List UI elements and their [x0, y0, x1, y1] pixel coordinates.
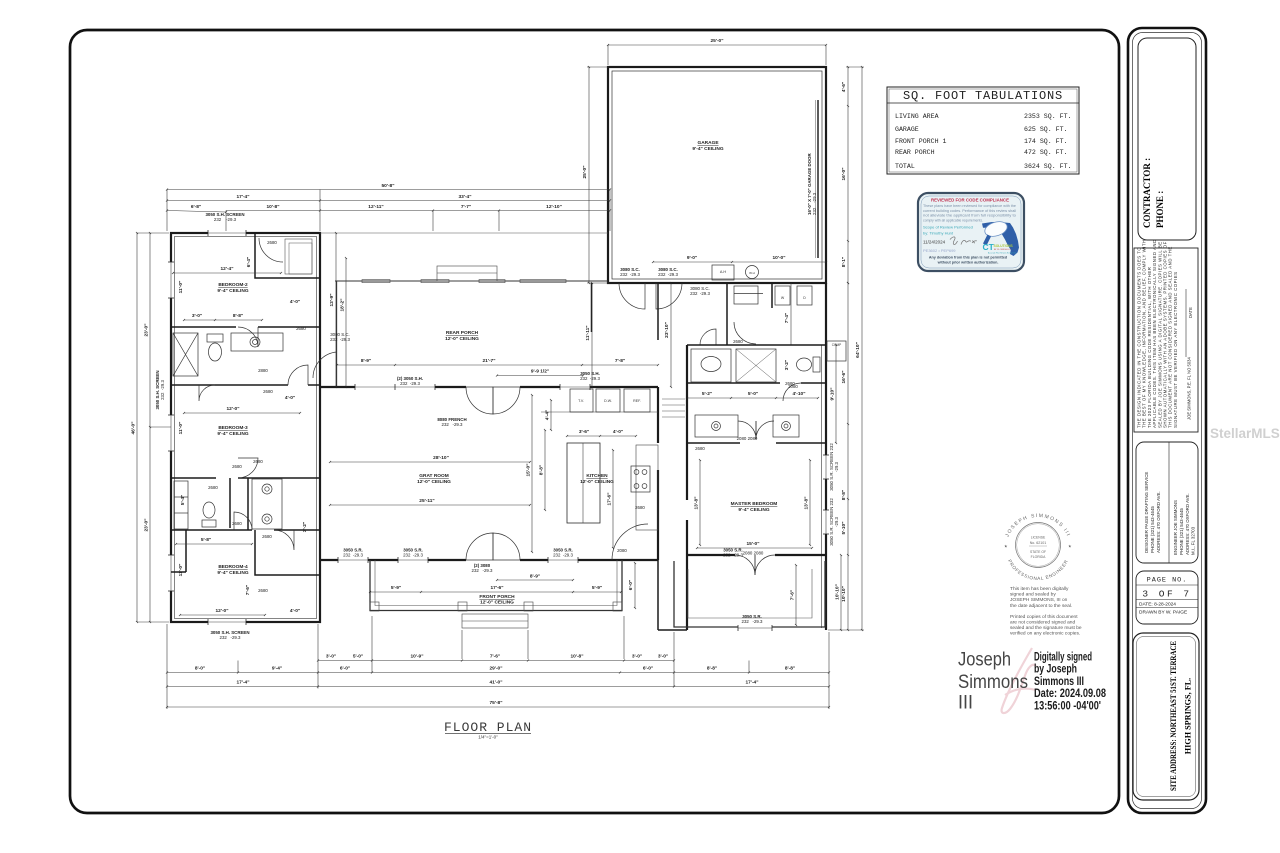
svg-text:232 -29.3: 232 -29.3 — [220, 635, 242, 640]
svg-text:2680: 2680 — [695, 446, 705, 451]
svg-text:50'-8": 50'-8" — [381, 183, 394, 189]
svg-text:Accurate Plan Review Every Tim: Accurate Plan Review Every Time — [988, 251, 1016, 254]
svg-text:5'-4": 5'-4" — [180, 495, 186, 505]
svg-text:6'-0": 6'-0" — [340, 666, 350, 672]
svg-text:75'-8": 75'-8" — [489, 700, 502, 706]
svg-text:64'-10": 64'-10" — [855, 342, 861, 358]
svg-text:REAR PORCH: REAR PORCH — [895, 149, 935, 156]
svg-text:FLOOR PLAN: FLOOR PLAN — [444, 720, 532, 735]
svg-text:8'-8": 8'-8" — [841, 490, 847, 500]
dim corridor 23'-10" — [670, 283, 672, 387]
south windows — [338, 557, 368, 563]
svg-text:17'-6": 17'-6" — [490, 585, 503, 591]
wing dims bed4 — [180, 614, 265, 616]
COMP box — [827, 341, 846, 361]
master shower — [736, 349, 776, 382]
svg-text:13'-8": 13'-8" — [694, 496, 700, 509]
front porch dims — [370, 591, 421, 593]
reviewer signature flourish — [950, 237, 977, 245]
svg-text:2680: 2680 — [253, 459, 263, 464]
svg-text:SIGNATURE MUST BE VERIFIED ON: SIGNATURE MUST BE VERIFIED ON ANY ELECTR… — [1173, 271, 1178, 428]
svg-text:ADDRESS: 470 OXFORD AVE.: ADDRESS: 470 OXFORD AVE. — [1156, 491, 1161, 553]
svg-text:DATE: DATE — [1188, 307, 1193, 318]
svg-text:7'-4": 7'-4" — [784, 313, 790, 323]
svg-text:23'-0": 23'-0" — [144, 323, 150, 336]
svg-text:BEDROOM-3: BEDROOM-3 — [218, 425, 248, 431]
bed2 closet — [255, 233, 320, 278]
svg-text:46'-0": 46'-0" — [131, 421, 137, 434]
svg-text:232 -29.3: 232 -29.3 — [690, 291, 710, 296]
rear porch edge — [335, 280, 608, 282]
wing window north — [208, 230, 246, 236]
hall/bath wall — [687, 344, 826, 346]
right porch dims — [795, 565, 797, 625]
bath3/bed4 wall — [171, 529, 252, 531]
svg-text:HIGH SPRINGS, FL.: HIGH SPRINGS, FL. — [1184, 678, 1193, 754]
svg-text:4'-6": 4'-6" — [841, 82, 847, 92]
svg-text:M.I., FL 32703: M.I., FL 32703 — [1191, 526, 1196, 555]
porch window south — [738, 625, 772, 631]
svg-text:CONTRACTOR :: CONTRACTOR : — [1142, 158, 1152, 228]
svg-text:1/4"=1'-0": 1/4"=1'-0" — [478, 735, 498, 740]
front porch outline — [370, 560, 622, 611]
svg-text:FLORIDA: FLORIDA — [1031, 555, 1046, 559]
svg-text:3'-0": 3'-0" — [192, 313, 202, 319]
svg-text:232 -29.3: 232 -29.3 — [160, 380, 165, 400]
svg-text:comply with all applicable req: comply with all applicable requirements. — [923, 218, 983, 222]
svg-text:10'-9": 10'-9" — [410, 654, 423, 660]
svg-text:15'-0": 15'-0" — [526, 463, 532, 476]
svg-text:are not considered signed and: are not considered signed and — [1010, 619, 1075, 625]
svg-text:13'-8": 13'-8" — [804, 496, 810, 509]
digital signature text — [1034, 650, 1106, 713]
svg-text:17'-4": 17'-4" — [236, 680, 249, 686]
kitchen window — [560, 384, 590, 390]
svg-text:SOLUTIONS: SOLUTIONS — [994, 244, 1014, 248]
svg-text:232 -29.3: 232 -29.3 — [658, 272, 678, 277]
svg-text:by: Timothy Hunt: by: Timothy Hunt — [923, 231, 954, 236]
svg-text:signed and sealed by: signed and sealed by — [1010, 592, 1056, 598]
svg-text:6'-0": 6'-0" — [643, 666, 653, 672]
svg-text:23'-0": 23'-0" — [144, 518, 150, 531]
bath door arc — [783, 383, 801, 401]
svg-text:GRAT ROOM: GRAT ROOM — [419, 473, 449, 479]
utility walls — [726, 283, 728, 345]
svg-text:Joseph: Joseph — [958, 649, 1011, 671]
wing dims bed3 — [184, 412, 300, 414]
svg-text:2680: 2680 — [267, 240, 277, 245]
svg-text:41'-0": 41'-0" — [489, 680, 502, 686]
designer/engineer box — [1136, 442, 1198, 563]
bath2 X box — [173, 333, 198, 376]
porch hall door arc — [313, 352, 337, 378]
svg-text:2080: 2080 — [617, 548, 627, 553]
magnifier handle — [983, 235, 991, 246]
svg-text:11'-0": 11'-0" — [178, 422, 184, 435]
dim garage left 25'-0" — [588, 67, 590, 283]
svg-text:FRONT PORCH: FRONT PORCH — [479, 594, 515, 600]
svg-text:the date adjacent to the seal.: the date adjacent to the seal. — [1010, 603, 1072, 609]
svg-text:current building codes. Perfor: current building codes. Performance of t… — [923, 209, 1016, 213]
dim garage right col1 — [847, 67, 849, 106]
garage door inner line — [817, 100, 819, 258]
bath3 toilet — [202, 520, 216, 527]
wic wall — [687, 442, 740, 444]
svg-text:Simmons: Simmons — [958, 671, 1028, 693]
bed2 door arc — [238, 327, 258, 347]
dim top 50'-8" — [167, 189, 610, 191]
page number box — [1136, 571, 1198, 624]
bed4 closet — [255, 530, 320, 575]
svg-text:11/24/2024: 11/24/2024 — [923, 240, 946, 245]
svg-text:PHONE (321) 543-4645: PHONE (321) 543-4645 — [1150, 506, 1155, 553]
svg-text:3'-0": 3'-0" — [632, 654, 642, 660]
svg-text:REAR PORCH: REAR PORCH — [446, 330, 479, 336]
svg-text:PAGE NO.: PAGE NO. — [1147, 577, 1188, 585]
bottom dim row C — [167, 686, 318, 688]
disclaimer box — [1134, 248, 1198, 432]
svg-text:sealed and the signature must: sealed and the signature must be — [1010, 625, 1082, 631]
disclaimer paragraph (rotated) — [1137, 239, 1178, 428]
svg-text:10'-8": 10'-8" — [266, 204, 279, 210]
svg-text:9'-4" CEILING: 9'-4" CEILING — [692, 146, 723, 152]
svg-text:2680: 2680 — [733, 339, 743, 344]
svg-text:FRONT PORCH 1: FRONT PORCH 1 — [895, 138, 946, 145]
svg-text:17'-6": 17'-6" — [607, 492, 613, 505]
svg-text:7'-6": 7'-6" — [490, 654, 500, 660]
dim 15'-0" vertical — [531, 395, 533, 552]
svg-text:12'-10": 12'-10" — [546, 204, 562, 210]
svg-text:BEDROOM-2: BEDROOM-2 — [218, 282, 248, 288]
bottom extension lines — [166, 624, 168, 709]
svg-text:11'-11": 11'-11" — [585, 325, 591, 340]
svg-text:8'-9": 8'-9" — [361, 358, 371, 364]
svg-text:DESIGNER PAIGE DRAFTING SERVI: DESIGNER PAIGE DRAFTING SERVICE — [1144, 472, 1149, 553]
svg-text:232 -29.3: 232 -29.3 — [400, 381, 420, 386]
svg-text:LICENSE: LICENSE — [1031, 536, 1046, 540]
bath2 vanity — [231, 333, 283, 351]
svg-text:9'-9 1/2": 9'-9 1/2" — [531, 369, 549, 375]
dim left 23'-0" x2 — [149, 233, 151, 427]
svg-text:8'-8": 8'-8" — [233, 313, 243, 319]
svg-text:3'-6": 3'-6" — [579, 429, 589, 435]
svg-text:5'-0": 5'-0" — [748, 391, 758, 397]
bath2 toilet — [207, 334, 223, 342]
svg-text:33'-4": 33'-4" — [458, 194, 471, 200]
dim master 15'-0" — [697, 547, 812, 549]
svg-text:25'-11": 25'-11" — [419, 498, 434, 504]
svg-text:4'-10": 4'-10" — [792, 391, 805, 397]
svg-text:2680: 2680 — [785, 381, 795, 386]
wing dims bed2 — [173, 272, 281, 274]
title block column outer border — [1128, 28, 1206, 813]
svg-text:4'-4": 4'-4" — [545, 410, 551, 420]
garage outer walls — [608, 67, 826, 283]
svg-text:13:56:00 -04'00': 13:56:00 -04'00' — [1034, 698, 1101, 712]
bath2/bed3 wall — [171, 384, 288, 386]
svg-text:25'-0": 25'-0" — [710, 38, 723, 44]
svg-text:5'-8": 5'-8" — [201, 537, 211, 543]
svg-text:AT FLORIDA LLC: AT FLORIDA LLC — [994, 248, 1012, 251]
svg-text:10'-10": 10'-10" — [841, 586, 847, 602]
dim kitchen 3'-6" 4'-0" — [567, 435, 600, 437]
svg-text:MASTER BEDROOM: MASTER BEDROOM — [731, 501, 778, 507]
svg-text:COMP: COMP — [832, 343, 842, 347]
garage service door arcs — [619, 283, 645, 309]
svg-text:6'-4": 6'-4" — [246, 257, 252, 267]
svg-text:DATE: 8-28-2024: DATE: 8-28-2024 — [1139, 602, 1176, 608]
svg-text:BEDROOM-4: BEDROOM-4 — [218, 564, 248, 570]
designer/engineer divider — [1168, 442, 1170, 563]
bottom dim small row — [318, 660, 372, 662]
svg-text:Printed copies of this documen: Printed copies of this document — [1010, 614, 1078, 620]
svg-text:T.V.: T.V. — [578, 399, 584, 403]
wic double door arcs — [738, 421, 756, 439]
dim right below garage — [847, 283, 849, 424]
svg-text:5'-9": 5'-9" — [391, 585, 401, 591]
svg-text:232 -29.3: 232 -29.3 — [403, 553, 423, 558]
rear right porch — [674, 561, 825, 627]
TV box — [570, 389, 593, 412]
master bath vanity — [691, 349, 731, 382]
wing right wall hallway lines — [336, 281, 338, 387]
signature ribbon mark — [1002, 648, 1036, 713]
svg-text:-29.3: -29.3 — [834, 461, 839, 472]
svg-text:232 -29.3: 232 -29.3 — [214, 217, 237, 222]
refrigerator box — [624, 389, 650, 412]
dim 17'-6" kitchen vertical — [612, 450, 614, 548]
svg-text:12'-4": 12'-4" — [220, 266, 233, 272]
svg-text:12'-0" CEILING: 12'-0" CEILING — [417, 479, 451, 485]
code compliance stamp — [918, 193, 1024, 271]
svg-text:5'-0": 5'-0" — [353, 654, 363, 660]
svg-text:A.H: A.H — [720, 270, 727, 274]
kitchen island — [567, 443, 600, 523]
svg-text:9'-4" CEILING: 9'-4" CEILING — [217, 288, 248, 294]
dim great room 25'-11" — [330, 504, 530, 506]
DW box — [596, 389, 620, 412]
dim left 46'-0" — [136, 233, 138, 622]
svg-text:4'-0": 4'-0" — [290, 608, 300, 614]
dim 4'-4" vertical — [550, 400, 552, 430]
svg-text:18'-2": 18'-2" — [340, 298, 346, 311]
printed signer name — [958, 649, 1028, 714]
svg-text:GARAGE: GARAGE — [895, 126, 919, 133]
svg-text:2680: 2680 — [263, 389, 273, 394]
right outer wall — [825, 283, 827, 630]
magnifier lens — [983, 219, 1009, 239]
svg-text:232 -29.3: 232 -29.3 — [553, 553, 573, 558]
svg-text:-29.3: -29.3 — [834, 516, 839, 527]
svg-text:5'-2": 5'-2" — [702, 391, 712, 397]
bath3 vanity with sinks — [252, 479, 282, 529]
contractor box — [1138, 38, 1196, 240]
great room south wall — [320, 559, 466, 561]
svg-text:9'-0": 9'-0" — [687, 255, 697, 261]
french door arcs rear — [466, 387, 493, 414]
svg-text:232 -29.3: 232 -29.3 — [723, 553, 743, 558]
svg-text:8'-8": 8'-8" — [785, 666, 795, 672]
svg-text:5'-10": 5'-10" — [841, 521, 847, 534]
range — [631, 466, 650, 492]
svg-text:9'-4": 9'-4" — [272, 666, 282, 672]
front french door arcs — [466, 533, 493, 560]
svg-text:8'-0": 8'-0" — [195, 666, 205, 672]
engineer seal — [1004, 513, 1072, 581]
svg-text:28'-10": 28'-10" — [433, 455, 449, 461]
svg-text:10'-10": 10'-10" — [835, 584, 841, 600]
svg-text:9'-4" CEILING: 9'-4" CEILING — [738, 507, 769, 513]
utility door arc — [700, 329, 716, 345]
svg-text:25'-0": 25'-0" — [582, 165, 588, 178]
svg-text:3 OF 7: 3 OF 7 — [1142, 589, 1191, 600]
svg-text:2353 SQ. FT.: 2353 SQ. FT. — [1024, 113, 1071, 120]
svg-text:2080 2080: 2080 2080 — [737, 436, 758, 441]
master south wall — [687, 554, 735, 556]
wing window south — [208, 619, 246, 625]
bath2 door arc — [288, 365, 308, 385]
svg-text:DRAWN BY W. PAIGE: DRAWN BY W. PAIGE — [1139, 610, 1187, 616]
svg-text:12'-11": 12'-11" — [368, 204, 383, 210]
svg-text:232 -29.3: 232 -29.3 — [580, 376, 600, 381]
dim 8'-8" vertical — [544, 430, 546, 510]
wing dims bath3 — [176, 543, 252, 545]
svg-text:232 -29.3: 232 -29.3 — [620, 272, 640, 277]
svg-text:12'-0": 12'-0" — [226, 406, 239, 412]
svg-text:★: ★ — [1068, 544, 1072, 549]
svg-text:No. 62101: No. 62101 — [1030, 541, 1047, 545]
svg-text:PHONE (321) 543-4645: PHONE (321) 543-4645 — [1179, 508, 1184, 555]
svg-text:2680: 2680 — [635, 505, 645, 510]
svg-text:16'-0": 16'-0" — [841, 167, 847, 180]
svg-text:2680: 2680 — [232, 521, 242, 526]
svg-text:9'-4" CEILING: 9'-4" CEILING — [217, 431, 248, 437]
dim extension verticals top — [166, 190, 168, 232]
dim great room 28'-10" — [330, 461, 530, 463]
dim 11'-11" porch — [591, 283, 593, 387]
svg-text:STATE OF: STATE OF — [1030, 550, 1046, 554]
svg-text:232 -29.3: 232 -29.3 — [742, 619, 764, 624]
svg-text:17'-4": 17'-4" — [745, 680, 758, 686]
svg-text:232 -29.3: 232 -29.3 — [343, 553, 363, 558]
left wing outer walls — [171, 233, 320, 622]
wing window west bed2 — [168, 262, 174, 298]
svg-text:This item has been digitally: This item has been digitally — [1010, 586, 1069, 592]
svg-text:7'-6": 7'-6" — [245, 585, 251, 595]
svg-text:2680: 2680 — [258, 588, 268, 593]
dim top row3 — [167, 211, 226, 213]
dim master bath row — [687, 397, 731, 399]
house rear wall — [320, 386, 466, 388]
master suite west wall — [686, 345, 688, 383]
svg-text:11'-0": 11'-0" — [178, 564, 184, 577]
svg-text:12'-0" CEILING: 12'-0" CEILING — [445, 336, 479, 342]
svg-text:6'-0": 6'-0" — [628, 580, 634, 590]
svg-text:16'-6": 16'-6" — [841, 370, 847, 383]
seal note paragraph 1 — [1010, 586, 1082, 637]
svg-text:10'-0": 10'-0" — [772, 255, 785, 261]
porch posts — [370, 602, 379, 611]
dim master 15'-8" verticals — [699, 460, 701, 545]
svg-text:11'-0": 11'-0" — [178, 281, 184, 294]
svg-text:W.H: W.H — [749, 271, 755, 275]
svg-text:21'-7": 21'-7" — [482, 358, 495, 364]
svg-text:7'-8": 7'-8" — [615, 358, 625, 364]
svg-text:3624 SQ. FT.: 3624 SQ. FT. — [1024, 163, 1071, 170]
master east windows — [823, 455, 829, 479]
svg-text:23'-10": 23'-10" — [664, 322, 670, 338]
svg-text:StellarMLS: StellarMLS — [1210, 426, 1280, 441]
svg-text:ENGINEER JOE SIMMONS: ENGINEER JOE SIMMONS — [1173, 500, 1178, 555]
bed3 door arc — [238, 458, 258, 478]
bottom dim row D 75'-8" — [167, 706, 829, 708]
great room east wall — [657, 387, 659, 443]
svg-text:232 -29.3: 232 -29.3 — [812, 192, 817, 215]
sheet border frame — [70, 30, 1119, 813]
svg-text:2680: 2680 — [232, 464, 242, 469]
svg-text:174 SQ. FT.: 174 SQ. FT. — [1024, 138, 1068, 145]
garage inner wall line — [612, 71, 822, 279]
svg-text:3'-0": 3'-0" — [326, 654, 336, 660]
sq foot tabulations table — [887, 87, 1079, 174]
svg-text:REF.: REF. — [633, 399, 641, 403]
svg-text:PE3602 • PEP699: PE3602 • PEP699 — [923, 248, 956, 253]
svg-text:SITE ADDRESS: NORTHEAST 51ST.: SITE ADDRESS: NORTHEAST 51ST. TERRACE — [1169, 641, 1178, 791]
svg-text:3'-2": 3'-2" — [784, 360, 790, 370]
svg-text:12'-0" CEILING: 12'-0" CEILING — [480, 600, 514, 606]
svg-text:472 SQ. FT.: 472 SQ. FT. — [1024, 149, 1068, 156]
pantry shelves — [662, 398, 685, 400]
svg-text:SQ. FOOT TABULATIONS: SQ. FOOT TABULATIONS — [903, 89, 1063, 103]
wic dressers — [695, 415, 738, 437]
AH unit — [712, 265, 734, 280]
svg-text:These plans have been reviewed: These plans have been reviewed for compl… — [923, 204, 1016, 208]
dim right 64'-10" — [861, 67, 863, 630]
svg-text:KITCHEN: KITCHEN — [586, 473, 608, 479]
bath3 walls — [229, 478, 231, 528]
svg-text:4'-0": 4'-0" — [285, 395, 295, 401]
wing window west bed3 — [168, 415, 174, 451]
svg-text:4'-0": 4'-0" — [613, 429, 623, 435]
svg-text:PHONE :: PHONE : — [1155, 191, 1165, 228]
dim porch interior row — [337, 364, 395, 366]
svg-text:LIVING AREA: LIVING AREA — [895, 113, 939, 120]
svg-text:8'-8": 8'-8" — [707, 666, 717, 672]
svg-text:3'-2": 3'-2" — [302, 522, 308, 532]
roof line over porch — [320, 232, 608, 234]
svg-text:15'-0": 15'-0" — [746, 541, 759, 547]
site address box — [1133, 633, 1199, 800]
svg-text:verified on any electronic cop: verified on any electronic copies. — [1010, 631, 1080, 637]
svg-text:Scope of Review Performed: Scope of Review Performed — [923, 225, 973, 230]
svg-text:5'-9": 5'-9" — [592, 585, 602, 591]
svg-text:TOTAL: TOTAL — [895, 163, 915, 170]
bath2 door arc extra — [199, 385, 215, 401]
porch screen panels — [362, 280, 390, 283]
svg-text:without prior written authoriz: without prior written authorization. — [937, 261, 999, 265]
svg-text:29'-0": 29'-0" — [489, 666, 502, 672]
svg-text:4'-0": 4'-0" — [290, 299, 300, 305]
svg-text:10'-8": 10'-8" — [570, 654, 583, 660]
svg-text:9'-4" CEILING: 9'-4" CEILING — [217, 570, 248, 576]
svg-text:8'-1": 8'-1" — [841, 257, 847, 267]
svg-text:2680: 2680 — [208, 485, 218, 490]
dim garage top 25'-0" — [608, 44, 826, 46]
svg-text:2680: 2680 — [262, 534, 272, 539]
corridor west wall — [657, 283, 659, 340]
svg-text:REVIEWED FOR CODE COMPLIANCE: REVIEWED FOR CODE COMPLIANCE — [931, 198, 1009, 203]
master porch door arcs — [735, 555, 755, 575]
